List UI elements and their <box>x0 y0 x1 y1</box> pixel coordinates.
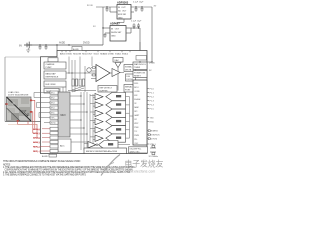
svg-text:OUT: OUT <box>21 109 27 113</box>
wire: +6V feed riser <box>102 7 104 45</box>
internal vertical wires upper middle <box>69 57 92 93</box>
comparator row 5 <box>90 126 130 134</box>
svg-text:32.768kHz: 32.768kHz <box>149 156 159 158</box>
svg-text:P1.1: P1.1 <box>150 93 155 95</box>
block: 32kHz oscillator <box>129 147 148 153</box>
svg-text:TXD: TXD <box>150 118 155 120</box>
svg-text:AIN2(–): AIN2(–) <box>33 141 40 144</box>
svg-text:T0 INT0: T0 INT0 <box>150 139 158 141</box>
wire: horizontal row y73 <box>66 72 96 74</box>
svg-text:P1.0: P1.0 <box>150 89 155 91</box>
crystal X1 <box>150 145 156 154</box>
svg-text:IN: IN <box>12 102 15 106</box>
capacitor C5 <box>141 7 144 12</box>
load cell LC1 photo <box>7 97 32 121</box>
svg-text:IN OUT: IN OUT <box>118 7 126 9</box>
capacitor C6 reg2 input <box>104 33 107 38</box>
svg-text:AIN2: AIN2 <box>51 97 55 100</box>
svg-text:ADP667: ADP667 <box>110 21 120 25</box>
svg-text:P1.5: P1.5 <box>150 109 155 111</box>
comparator row 2 <box>90 101 130 109</box>
block: filter <box>126 74 136 81</box>
red row wires <box>40 129 50 151</box>
svg-text:9V IN: 9V IN <box>87 5 93 7</box>
svg-text:5V: 5V <box>93 26 96 28</box>
svg-text:SS/MISO: SS/MISO <box>150 131 159 133</box>
svg-text:GND: GND <box>118 17 123 19</box>
svg-text:THIS CIRCUIT DEMONSTRATES A CO: THIS CIRCUIT DEMONSTRATES A COMPLETE WEI… <box>3 160 81 163</box>
svg-text:AVDD DVDD MCLKIN MCLKOUT SC: AVDD DVDD MCLKIN MCLKOUT SCLK SDATA DGND… <box>60 53 129 56</box>
wires: dark pin rows to left verticals <box>34 93 50 123</box>
comparator row 7 <box>84 141 130 149</box>
svg-text:SERIAL: SERIAL <box>125 86 133 89</box>
wire: AGND bottom horizontal <box>5 121 54 123</box>
wire: upper-left horizontal <box>5 56 41 58</box>
regulator U2 ADP3303 <box>117 0 131 19</box>
svg-text:RESET: RESET <box>134 75 141 77</box>
svg-text:ERR NR: ERR NR <box>118 14 126 16</box>
block: bandgap reference <box>44 71 66 79</box>
svg-text:AIN5: AIN5 <box>51 112 55 115</box>
wire: reg1 input <box>96 6 117 8</box>
notes block <box>3 164 135 176</box>
svg-text:AGND: AGND <box>42 155 48 158</box>
svg-text:DVDD: DVDD <box>83 43 90 45</box>
svg-text:3. THE SERIAL INTERFACE CONNEC: 3. THE SERIAL INTERFACE CONNECTS TO THE … <box>3 173 86 176</box>
tag output vertical bus <box>129 97 131 139</box>
MCU core block <box>133 80 147 145</box>
pin stub from bus into IC <box>56 45 58 51</box>
svg-text:BANDGAP: BANDGAP <box>46 72 57 75</box>
comparator + tag rows <box>84 93 130 149</box>
svg-text:AIN1(+): AIN1(+) <box>33 128 40 131</box>
pin stub below IC bottom <box>42 154 57 158</box>
svg-text:0.1µF 10µF: 0.1µF 10µF <box>133 2 144 4</box>
svg-text:BUFFER: BUFFER <box>100 90 109 92</box>
buffer triangle DAC <box>115 63 121 68</box>
svg-text:P1.4: P1.4 <box>150 105 155 107</box>
svg-text:DIG: DIG <box>127 76 131 78</box>
svg-text:IN OUT: IN OUT <box>111 28 120 30</box>
wire: horizontal row y90 <box>68 90 96 92</box>
faint red return line <box>8 123 37 125</box>
op-amp A2 <box>112 69 120 77</box>
pin ticks on IC top edge <box>62 51 130 53</box>
svg-text:MOSI/SCK: MOSI/SCK <box>150 135 161 137</box>
bus feed rows from MUX <box>70 96 87 134</box>
svg-text:TIMER: TIMER <box>134 67 141 69</box>
capacitor C2 <box>45 45 48 50</box>
svg-text:AIN1: AIN1 <box>51 92 55 95</box>
svg-text:REF(+): REF(+) <box>33 146 40 148</box>
svg-text:电子发烧友: 电子发烧友 <box>125 159 164 169</box>
svg-text:ON-CHIP PLL: ON-CHIP PLL <box>130 149 142 151</box>
svg-text:6V: 6V <box>19 45 22 48</box>
svg-text:REF DETECT: REF DETECT <box>100 87 113 89</box>
svg-text:PSM: PSM <box>134 127 139 129</box>
svg-text:SHDN SET: SHDN SET <box>111 32 122 34</box>
current source symbol <box>87 68 91 72</box>
capacitor C4 <box>135 7 138 12</box>
wire: load cell left lead <box>5 103 7 105</box>
wire: 5V rail down <box>139 28 141 62</box>
svg-text:REF+: REF+ <box>51 118 56 120</box>
comparator row 4 <box>90 117 130 125</box>
svg-text:ADP3303: ADP3303 <box>117 0 129 4</box>
svg-text:DVDD: DVDD <box>149 63 155 65</box>
svg-text:DAC: DAC <box>115 59 120 62</box>
red terminal marks <box>5 103 7 105</box>
svg-text:REF(–): REF(–) <box>33 151 40 153</box>
comparator row 6 <box>90 134 130 142</box>
MCU right pin stubs and labels <box>147 89 149 144</box>
svg-text:WATCHDOG: WATCHDOG <box>134 63 146 66</box>
wire: reg2 input <box>103 27 110 29</box>
red wires from load cell <box>18 100 37 137</box>
svg-text:2mV/V 350Ω BRIDGE: 2mV/V 350Ω BRIDGE <box>8 95 29 97</box>
svg-text:PUMP: PUMP <box>46 67 53 69</box>
capacitor C3 reg1 input <box>106 7 109 12</box>
resistor network R-array <box>72 79 85 92</box>
watermark elecfans logo <box>101 155 164 176</box>
ADC block <box>58 139 71 152</box>
svg-text:32kHz OSC: 32kHz OSC <box>130 151 141 153</box>
svg-text:P1.3: P1.3 <box>150 101 155 103</box>
svg-text:PWM: PWM <box>134 135 139 137</box>
svg-text:UART: UART <box>134 114 140 117</box>
pin label boxes right top <box>136 56 147 61</box>
center vertical buses <box>81 92 93 150</box>
pin boxes column <box>50 91 58 153</box>
wire: 3V rail down right <box>151 7 153 62</box>
svg-text:GND: GND <box>111 36 116 38</box>
svg-text:www.elecfans.com: www.elecfans.com <box>126 170 156 174</box>
svg-text:3V: 3V <box>149 70 152 72</box>
wires: block column stubs <box>60 87 66 92</box>
svg-text:OSC: OSC <box>134 143 139 145</box>
svg-text:3V: 3V <box>154 6 157 8</box>
svg-text:MICROCONVERTER ADuC834: MICROCONVERTER ADuC834 <box>86 150 118 153</box>
wire: top supply bus <box>27 44 103 46</box>
pin label box on top edge <box>72 47 82 51</box>
svg-text:MUX: MUX <box>61 115 67 117</box>
svg-text:CORE: CORE <box>134 91 140 93</box>
block: reference mux <box>98 86 117 93</box>
bottom wide label box <box>84 148 127 154</box>
block: charge pump <box>44 62 66 69</box>
block: POR <box>133 71 147 78</box>
wire: reg1 output rail <box>131 6 152 8</box>
wire: reg2 output <box>126 27 140 29</box>
svg-text:8051: 8051 <box>134 83 138 85</box>
comparator row 1 <box>90 93 130 101</box>
svg-text:CHARGE: CHARGE <box>46 63 56 66</box>
main IC boundary ADuC834 <box>41 51 148 154</box>
svg-text:0.1µF 10µF: 0.1µF 10µF <box>131 21 142 23</box>
svg-text:PORT: PORT <box>125 90 131 92</box>
svg-text:BUF VREF: BUF VREF <box>46 84 57 86</box>
svg-text:ADC: ADC <box>60 145 65 148</box>
svg-text:RXD: RXD <box>150 122 155 124</box>
svg-text:RAM: RAM <box>134 106 139 109</box>
svg-text:MCU: MCU <box>134 87 139 89</box>
op-amp A1 (PGA) <box>96 65 110 82</box>
regulator U3 ADP667 <box>110 21 126 41</box>
svg-text:DELTA: DELTA <box>125 69 132 72</box>
svg-text:POWER ON: POWER ON <box>134 72 146 74</box>
svg-text:AIN4: AIN4 <box>51 107 55 110</box>
block: io buffer <box>48 58 58 62</box>
block: cal logic <box>124 65 136 72</box>
svg-text:SD OUT: SD OUT <box>118 11 127 13</box>
svg-text:AVDD: AVDD <box>59 42 66 45</box>
block: temp sensor <box>44 89 59 94</box>
DAC block <box>113 58 123 63</box>
svg-text:AIN2(+): AIN2(+) <box>33 137 40 140</box>
capacitor C8 <box>137 23 140 28</box>
block: AVDD monitor <box>133 62 147 70</box>
svg-text:AIN1(–): AIN1(–) <box>33 132 40 135</box>
svg-text:AGND: AGND <box>51 122 57 125</box>
wire: U2 GND down <box>123 19 125 23</box>
svg-text:SPI: SPI <box>134 111 138 113</box>
svg-text:SIGMA: SIGMA <box>125 66 132 69</box>
svg-text:P1.2: P1.2 <box>150 97 155 99</box>
svg-text:LOAD CELL: LOAD CELL <box>8 91 20 94</box>
red pin labels <box>33 128 40 153</box>
svg-text:REFERENCE: REFERENCE <box>46 77 59 79</box>
MUX block <box>58 92 70 137</box>
battery B1 +6V excitation <box>19 42 32 49</box>
wire: left border vertical <box>4 57 6 122</box>
block: control <box>124 85 136 93</box>
svg-text:AIN3: AIN3 <box>51 102 55 105</box>
block: buffer <box>44 81 66 87</box>
capacitor C1 <box>39 45 42 50</box>
ground under battery <box>26 48 30 53</box>
svg-text:FLASH: FLASH <box>134 98 141 101</box>
capacitor C7 <box>133 23 136 28</box>
comparator row 3 <box>90 109 130 117</box>
svg-text:AGND: AGND <box>73 48 79 51</box>
svg-text:PLL: PLL <box>134 139 137 141</box>
